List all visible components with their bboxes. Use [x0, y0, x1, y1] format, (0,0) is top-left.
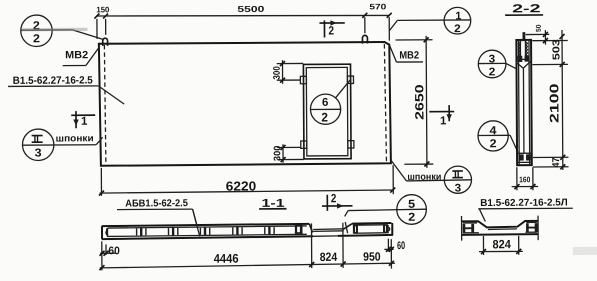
svg-text:50: 50 — [536, 24, 543, 32]
svg-text:МВ2: МВ2 — [65, 49, 88, 61]
svg-text:4: 4 — [489, 125, 497, 137]
svg-text:6: 6 — [322, 97, 328, 109]
svg-text:2: 2 — [454, 23, 461, 35]
svg-text:3: 3 — [35, 147, 42, 159]
svg-text:2: 2 — [490, 138, 497, 150]
svg-text:2: 2 — [33, 33, 40, 45]
svg-text:2: 2 — [489, 66, 496, 78]
svg-text:150: 150 — [96, 5, 110, 14]
svg-text:570: 570 — [369, 2, 387, 11]
svg-text:160: 160 — [519, 175, 531, 184]
svg-text:3: 3 — [489, 53, 496, 65]
svg-text:2: 2 — [408, 212, 415, 224]
svg-text:5: 5 — [408, 199, 416, 211]
svg-text:шпонки: шпонки — [407, 172, 441, 183]
svg-text:2-2: 2-2 — [512, 3, 541, 15]
svg-text:1: 1 — [455, 10, 461, 22]
svg-text:950: 950 — [363, 250, 381, 264]
svg-text:6220: 6220 — [226, 178, 257, 193]
svg-text:2: 2 — [331, 191, 337, 205]
svg-text:824: 824 — [492, 237, 511, 251]
svg-text:47: 47 — [551, 157, 562, 167]
svg-text:300: 300 — [272, 66, 283, 80]
svg-text:5500: 5500 — [237, 4, 264, 14]
svg-text:МВ2: МВ2 — [399, 49, 419, 61]
svg-text:3: 3 — [455, 182, 462, 194]
svg-text:В1.5-62.27-16-2.5: В1.5-62.27-16-2.5 — [13, 74, 93, 86]
svg-text:1: 1 — [440, 115, 447, 127]
svg-text:503: 503 — [551, 39, 562, 61]
svg-text:60: 60 — [397, 240, 405, 252]
svg-text:60: 60 — [108, 245, 120, 257]
svg-text:шпонки: шпонки — [56, 133, 94, 144]
svg-text:1: 1 — [81, 116, 88, 128]
svg-text:300: 300 — [272, 146, 283, 162]
svg-text:824: 824 — [320, 250, 338, 264]
svg-text:2: 2 — [328, 23, 334, 37]
svg-text:АБВ1.5-62-2.5: АБВ1.5-62-2.5 — [125, 198, 188, 209]
svg-text:В1.5-62.27-16-2.5Л: В1.5-62.27-16-2.5Л — [480, 197, 568, 209]
svg-text:4446: 4446 — [214, 252, 239, 266]
svg-text:2100: 2100 — [547, 83, 561, 123]
svg-text:2: 2 — [321, 110, 328, 124]
svg-text:2650: 2650 — [412, 84, 426, 120]
